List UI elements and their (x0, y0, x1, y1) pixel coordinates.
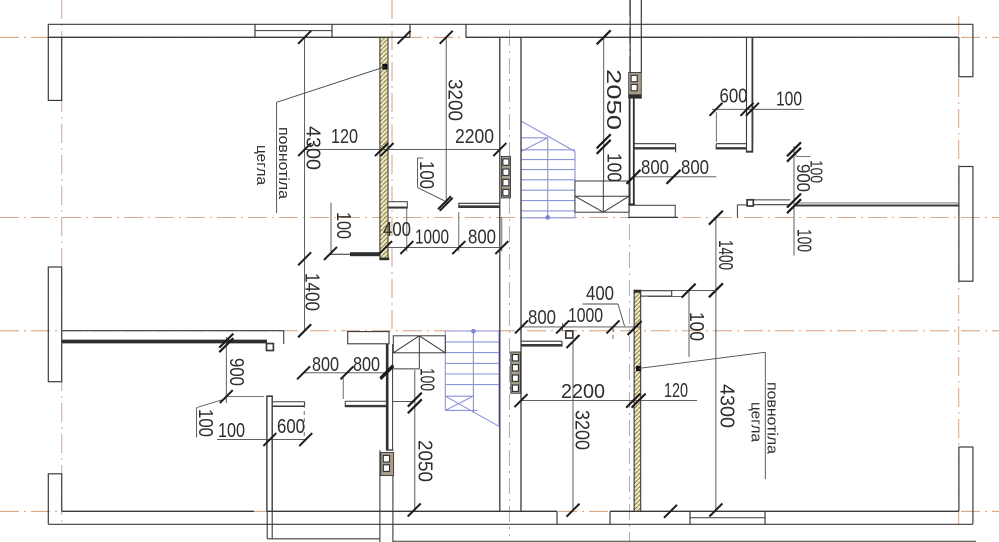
porch front edge (267, 538, 380, 540)
wall stub right of lower hatch wall (641, 291, 672, 296)
svg-text:4300: 4300 (302, 126, 324, 170)
svg-text:повнотіла: повнотіла (764, 382, 780, 455)
leader anchor dot upper (382, 64, 387, 70)
svg-text:1000: 1000 (415, 227, 449, 249)
wall stub at party wall lower (521, 340, 562, 342)
party wall between units (500, 37, 521, 511)
svg-text:400: 400 (383, 219, 411, 241)
svg-text:4300: 4300 (716, 384, 738, 428)
dim line 3200 lower (572, 342, 574, 511)
left wall piece 3 (47, 473, 49, 524)
svg-text:800: 800 (353, 354, 380, 376)
svg-text:800: 800 (528, 307, 556, 329)
dimension texts upper unit (301, 69, 827, 428)
svg-text:100: 100 (415, 161, 437, 189)
porch side walls extension (266, 512, 268, 539)
extension from wall to 2050 dim (393, 401, 415, 403)
svg-text:100: 100 (793, 229, 815, 252)
bottom wall opening edges (556, 511, 558, 524)
svg-text:1000: 1000 (568, 305, 603, 327)
porch lines below left unit (267, 450, 976, 542)
svg-text:800: 800 (312, 354, 339, 376)
dim line 900 left (225, 337, 227, 403)
wall W3 (600 corridor wall) (634, 143, 676, 145)
top wall outer line (48, 23, 973, 25)
dim line 2200/120 lower (521, 400, 697, 402)
axis V1 x=62 (61, 0, 63, 524)
svg-text:600: 600 (277, 416, 305, 438)
dim line 4300/1400 left (304, 37, 306, 331)
svg-text:100: 100 (218, 420, 245, 442)
wall right of 600 room (345, 400, 387, 402)
wall under stairs W2'' (386, 342, 389, 450)
svg-text:800: 800 (468, 227, 496, 249)
wall stub left of upper hatch wall (330, 252, 380, 256)
dim line 100 near hatch (x=331) (330, 203, 332, 256)
top wall opening edge x=410 (409, 24, 411, 37)
axis H4 y=511.3 (0, 510, 999, 512)
corridor wall left: thin top line (62, 330, 284, 332)
wall B outlined box (348, 332, 389, 344)
corridor wall left: thick bar (62, 340, 267, 344)
svg-text:2050: 2050 (602, 69, 624, 130)
dim line 3200 top (445, 37, 447, 204)
vent block VB2 on party wall lower (511, 352, 521, 393)
dim line 800/1000/400 lower (521, 326, 640, 328)
left wall piece 1 (47, 24, 49, 101)
svg-text:900: 900 (793, 164, 813, 192)
corridor wall end connector (283, 331, 285, 344)
svg-text:3200: 3200 (571, 410, 593, 450)
svg-text:600: 600 (720, 86, 748, 108)
dimension lines lower unit (197, 291, 716, 511)
svg-text:900: 900 (225, 358, 247, 386)
svg-text:100: 100 (603, 153, 625, 182)
svg-text:3200: 3200 (444, 79, 466, 121)
left wall piece 2 (47, 267, 49, 383)
interior walls upper unit (388, 37, 959, 217)
ticks lower unit (219, 284, 695, 518)
svg-text:повнотіла: повнотіла (275, 127, 291, 200)
wall W1b to party wall (459, 202, 500, 204)
right wall piece 3 (972, 447, 974, 525)
landing 1 box (575, 181, 629, 212)
svg-text:1400: 1400 (714, 240, 736, 270)
svg-text:100: 100 (416, 368, 438, 391)
svg-text:100: 100 (332, 212, 354, 239)
window W2 in bottom wall (689, 511, 691, 524)
svg-text:120: 120 (664, 380, 688, 402)
leader 100 left (197, 399, 226, 408)
corridor wall thin pair (753, 199, 790, 201)
vent block VB1 on party wall upper (501, 156, 510, 198)
svg-text:120: 120 (331, 126, 358, 148)
wall stub W1a right of hatch (388, 202, 407, 208)
dim line 100/900 right (793, 146, 795, 256)
dim line 120+2200 (305, 149, 500, 151)
top wall inner line right segment (466, 36, 959, 38)
stairs lower flight (blue) (445, 329, 499, 426)
landing 2 box (393, 336, 445, 353)
dim line 600 + 100 underline (217, 439, 307, 441)
interior walls lower unit (62, 291, 682, 512)
vent block VB3 top of wall W2 (628, 73, 642, 97)
door post square lower-left (267, 344, 274, 351)
wall box right of landing 1 (629, 205, 675, 217)
axis V3 x=509.5 party wall (509, 30, 511, 536)
door post square lower-mid (566, 331, 573, 338)
top wall opening edge x=466 (465, 24, 467, 37)
material label lower (povnotila tsegla) (639, 352, 780, 479)
svg-text:400: 400 (586, 283, 614, 305)
axis H1 y=37 (0, 36, 999, 38)
svg-text:800: 800 (641, 157, 669, 179)
top wall inner line left segment (48, 36, 410, 38)
leader anchor dot lower (636, 366, 641, 371)
dim line 2050/100 stairs (603, 37, 605, 150)
dim line 600/100 top right (712, 108, 804, 110)
dim line 800/800 upper (634, 176, 717, 178)
wall above 600 text (272, 401, 304, 403)
wall W2 vertical (right unit hallway) (628, 99, 635, 205)
walk line above landing 1 (603, 150, 605, 181)
window W1 in top wall (254, 24, 256, 37)
axis H2 y=217.6 (0, 217, 999, 219)
svg-text:100: 100 (194, 409, 216, 437)
axis H3 y=330.8 (0, 330, 999, 332)
terrace edge line (393, 540, 976, 542)
svg-text:2200: 2200 (561, 381, 605, 403)
svg-text:800: 800 (681, 157, 709, 179)
svg-text:цегла: цегла (253, 145, 269, 186)
right wall piece 1 (972, 24, 974, 77)
axis V4 x=629.5 (629, 0, 631, 541)
brick partition wall upper (hatched) (379, 37, 389, 259)
wall W4 vertical (746, 37, 748, 151)
stairs upper flight (blue) (522, 121, 576, 219)
bottom wall inner segments (62, 510, 254, 512)
svg-text:2050: 2050 (414, 440, 436, 482)
wall 600 vertical (266, 396, 268, 512)
lower porch walls / stair walls of left unit (386, 342, 393, 450)
door post square right corridor (747, 200, 753, 206)
axis V5 x=958.8 (958, 16, 960, 524)
svg-text:2200: 2200 (455, 126, 494, 148)
dim line 2050 lower (414, 370, 416, 511)
svg-text:100: 100 (776, 89, 802, 111)
axis V2 x=392 (391, 0, 393, 331)
svg-text:1400: 1400 (301, 273, 323, 311)
dim line 100 lower right (688, 291, 690, 357)
corridor wall W7 long (796, 202, 959, 204)
dim line 800/800 lower (304, 372, 388, 374)
svg-text:цегла: цегла (748, 402, 764, 443)
vent block VB4 (381, 452, 394, 475)
leader 100 wall W1a (417, 158, 419, 188)
dim chain 400/1000/800 (386, 247, 503, 249)
dimension texts lower unit (194, 283, 707, 482)
upper porch walls at entry of right unit (630, 0, 641, 73)
corridor L-line (736, 205, 738, 218)
dimension lines upper unit (305, 37, 811, 510)
ticks upper unit (298, 30, 801, 516)
dim line 1400/4300 right (715, 218, 717, 511)
wall W5 stub left of W4 (716, 143, 746, 145)
leader 400 lower (583, 303, 619, 305)
brick partition wall lower (hatched) (634, 290, 642, 512)
svg-text:100: 100 (685, 312, 707, 341)
right wall piece 2 (972, 166, 974, 282)
material label upper (povnotila tsegla) (253, 67, 385, 213)
bottom wall outer line (48, 523, 973, 525)
